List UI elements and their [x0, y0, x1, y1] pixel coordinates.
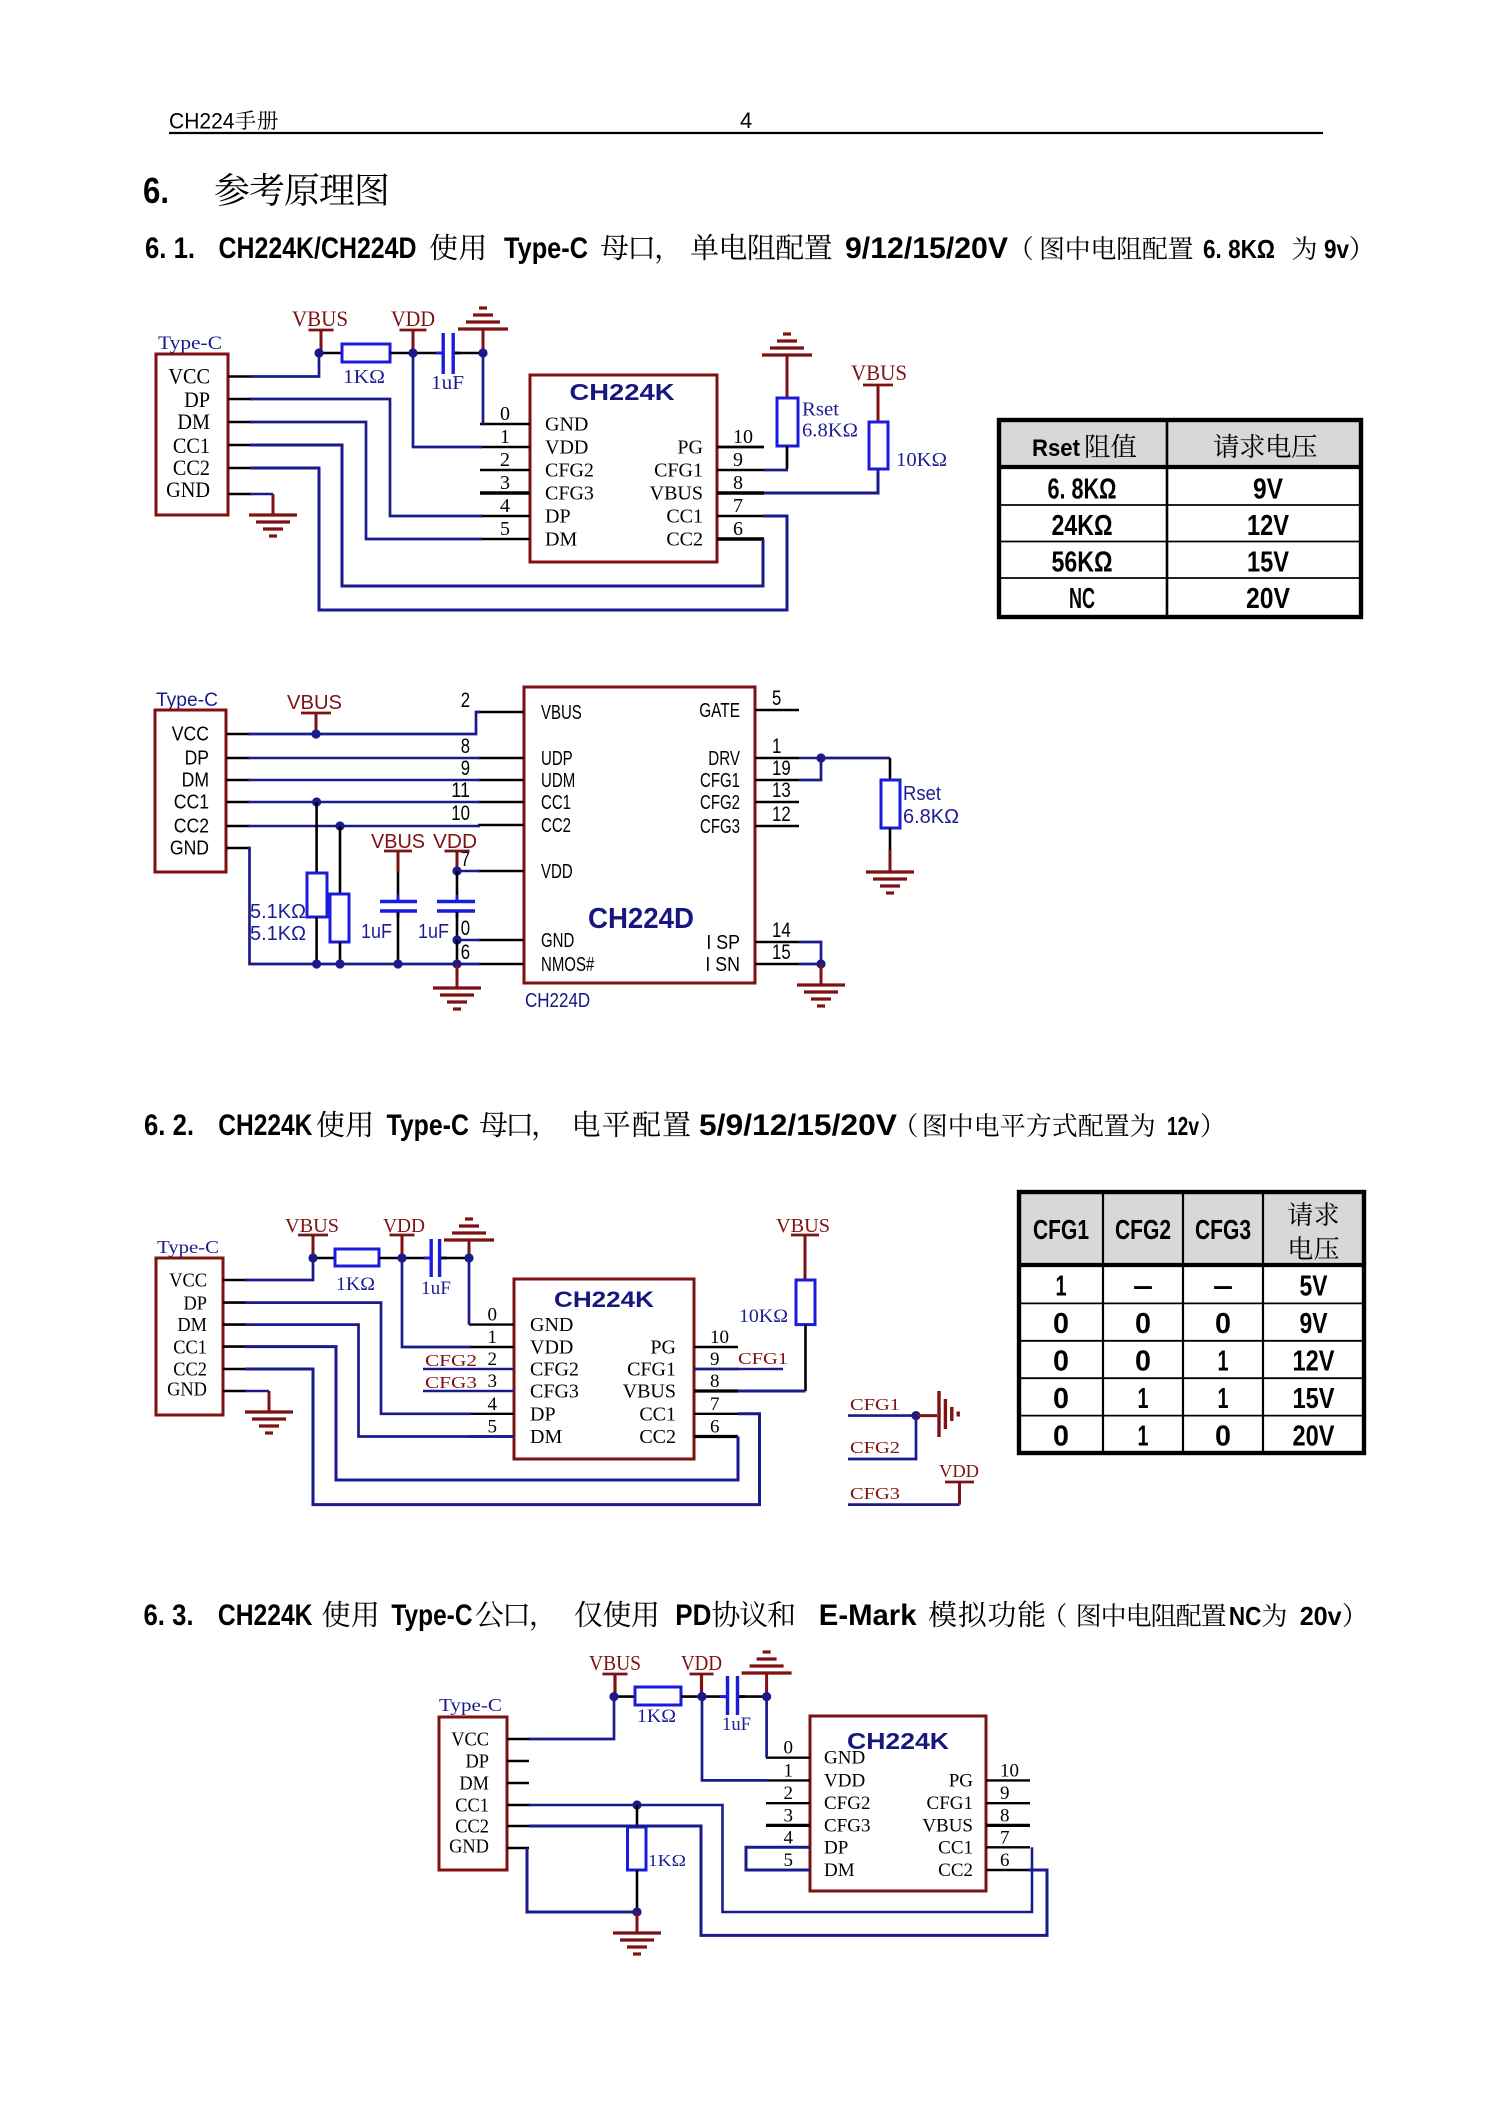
- svg-text:CC1: CC1: [455, 1795, 489, 1817]
- svg-text:4: 4: [784, 1827, 794, 1848]
- svg-text:DM: DM: [177, 409, 210, 434]
- svg-text:VDD: VDD: [530, 1337, 573, 1359]
- svg-text:CH224K: CH224K: [218, 1599, 313, 1632]
- svg-text:CFG3: CFG3: [700, 816, 740, 838]
- svg-text:56KΩ: 56KΩ: [1052, 547, 1113, 579]
- capacitor C3 1uF: [456, 871, 459, 900]
- svg-text:0: 0: [1135, 1308, 1151, 1340]
- svg-text:7: 7: [1000, 1827, 1010, 1848]
- pin stubs U2 right: [755, 709, 799, 711]
- svg-text:Type-C: Type-C: [156, 690, 218, 711]
- wire ISP/ISN to ground: [799, 942, 821, 964]
- svg-text:8: 8: [1000, 1805, 1010, 1826]
- svg-text:NC: NC: [1069, 583, 1095, 615]
- svg-text:VBUS: VBUS: [650, 483, 703, 505]
- svg-text:PG: PG: [650, 1337, 676, 1359]
- pin stubs U4: [766, 1756, 810, 1758]
- svg-text:NMOS#: NMOS#: [541, 954, 595, 976]
- svg-text:20V: 20V: [1246, 583, 1291, 615]
- svg-text:1KΩ: 1KΩ: [336, 1274, 375, 1295]
- svg-text:20V: 20V: [1293, 1421, 1336, 1453]
- svg-text:9: 9: [710, 1349, 720, 1370]
- svg-text:Rset: Rset: [903, 783, 941, 805]
- svg-text:8: 8: [461, 735, 470, 758]
- wire GND connector to rail schematic 4: [507, 1847, 529, 1850]
- ground top schematic 3: [444, 1238, 494, 1241]
- svg-text:1: 1: [488, 1327, 498, 1348]
- ground under connector schematic 3: [245, 1410, 293, 1413]
- svg-text:DM: DM: [824, 1860, 855, 1881]
- svg-text:CFG1: CFG1: [738, 1349, 788, 1368]
- svg-text:0: 0: [500, 403, 510, 425]
- junction nodes on VBUS/VDD rail: [314, 348, 323, 357]
- svg-text:PG: PG: [949, 1770, 974, 1791]
- wire cap C3 to pin 0 GND: [457, 939, 480, 942]
- table 1 Rset voltage: [1001, 422, 1359, 468]
- svg-text:12V: 12V: [1293, 1346, 1336, 1378]
- svg-text:DM: DM: [177, 1314, 207, 1336]
- svg-text:3: 3: [784, 1805, 794, 1826]
- svg-text:DM: DM: [530, 1426, 562, 1448]
- wire CC2 to pin 6 schematic 4: [507, 1825, 531, 1828]
- svg-text:Type-C: Type-C: [439, 1695, 502, 1715]
- svg-text:1: 1: [500, 426, 510, 448]
- svg-text:9/12/15/20V: 9/12/15/20V: [845, 232, 1008, 265]
- wire VDD node to pin 1: [413, 353, 482, 447]
- svg-text:1uF: 1uF: [361, 921, 392, 943]
- svg-text:CC1: CC1: [174, 792, 209, 814]
- svg-text:9v: 9v: [1324, 234, 1349, 264]
- svg-text:DP: DP: [545, 506, 571, 528]
- junction nodes schematic 4: [609, 1692, 618, 1701]
- svg-text:VDD: VDD: [541, 861, 573, 883]
- svg-text:5.1KΩ: 5.1KΩ: [250, 901, 306, 923]
- svg-text:CFG2: CFG2: [425, 1351, 477, 1370]
- wire CC2 to pin 10: [226, 825, 250, 828]
- svg-text:19: 19: [772, 757, 791, 780]
- table 2 CFG levels: [1021, 1194, 1362, 1266]
- capacitor C1 1uF: [413, 352, 442, 355]
- svg-text:CC2: CC2: [173, 1359, 207, 1381]
- svg-text:Rset: Rset: [1032, 435, 1080, 462]
- svg-text:0: 0: [488, 1305, 498, 1326]
- svg-text:GND: GND: [166, 477, 210, 502]
- svg-text:12: 12: [772, 803, 791, 826]
- IC U4 CH224K: [810, 1716, 986, 1891]
- ground top right schematic 1: [458, 327, 508, 330]
- pin stubs U3: [469, 1323, 514, 1325]
- svg-text:VBUS: VBUS: [589, 1651, 641, 1675]
- svg-text:GND: GND: [167, 1379, 207, 1401]
- svg-text:6: 6: [461, 941, 470, 964]
- svg-text:CFG2: CFG2: [1115, 1214, 1171, 1245]
- svg-text:CFG2: CFG2: [850, 1438, 900, 1457]
- svg-text:DM: DM: [545, 529, 577, 551]
- resistor R2 10Kohm: [869, 422, 888, 469]
- svg-text:5.1KΩ: 5.1KΩ: [250, 923, 306, 945]
- ground rail wire to pin 6 NMOS#: [226, 847, 250, 850]
- svg-text:GND: GND: [530, 1314, 573, 1336]
- wire DM to pin 5 schematic 3: [223, 1323, 247, 1326]
- svg-text:9: 9: [733, 449, 743, 471]
- resistor R7 10Kohm: [796, 1280, 815, 1325]
- svg-text:6: 6: [733, 518, 743, 540]
- svg-text:VBUS: VBUS: [292, 306, 348, 331]
- svg-text:CFG3: CFG3: [545, 483, 594, 505]
- svg-text:6. 8KΩ: 6. 8KΩ: [1048, 474, 1117, 506]
- svg-text:CFG3: CFG3: [1195, 1214, 1251, 1245]
- svg-text:4: 4: [488, 1394, 498, 1415]
- wire GND connector to ground: [228, 493, 252, 496]
- svg-text:DP: DP: [185, 748, 209, 770]
- svg-text:11: 11: [451, 779, 470, 802]
- svg-text:0: 0: [461, 917, 470, 940]
- svg-text:0: 0: [1135, 1346, 1151, 1378]
- wire CC1 to pin 11: [226, 801, 250, 804]
- svg-text:1KΩ: 1KΩ: [648, 1851, 686, 1870]
- svg-text:I SN: I SN: [705, 954, 740, 976]
- svg-text:5/9/12/15/20V: 5/9/12/15/20V: [699, 1109, 897, 1142]
- svg-text:VBUS: VBUS: [541, 702, 582, 724]
- svg-text:4: 4: [740, 108, 752, 133]
- svg-text:20v: 20v: [1300, 1601, 1343, 1631]
- resistor Rset 6.8Kohm: [777, 398, 798, 446]
- svg-text:1uF: 1uF: [418, 921, 449, 943]
- ground under Rset: [866, 870, 914, 873]
- capacitor C2 1uF: [397, 872, 400, 900]
- svg-text:CFG3: CFG3: [824, 1815, 870, 1836]
- svg-text:CFG3: CFG3: [425, 1373, 477, 1392]
- svg-text:UDP: UDP: [541, 748, 573, 770]
- svg-text:1: 1: [1138, 1421, 1149, 1453]
- wire VDD node to pin 1 schematic 4: [702, 1697, 768, 1781]
- svg-text:DP: DP: [530, 1403, 556, 1425]
- wire GND node to pin 0 schematic 3: [468, 1258, 471, 1325]
- svg-text:CFG1: CFG1: [927, 1793, 973, 1814]
- svg-text:CFG2: CFG2: [545, 460, 594, 482]
- svg-text:VBUS: VBUS: [851, 360, 907, 385]
- wire VCC to pin 2 VBUS: [226, 733, 250, 736]
- svg-text:15V: 15V: [1293, 1383, 1336, 1415]
- wire CC2 to pin 7: [228, 467, 252, 470]
- svg-text:6. 8KΩ: 6. 8KΩ: [1203, 234, 1275, 264]
- svg-text:CC2: CC2: [541, 815, 571, 837]
- svg-text:Type-C: Type-C: [504, 232, 588, 265]
- svg-text:1: 1: [1056, 1271, 1067, 1303]
- svg-text:DP: DP: [184, 1293, 208, 1315]
- wire DM to pin 9 UDM: [226, 779, 250, 782]
- svg-text:15V: 15V: [1247, 547, 1290, 579]
- svg-text:6: 6: [1000, 1850, 1010, 1871]
- svg-text:24KΩ: 24KΩ: [1052, 510, 1113, 542]
- ground under schematic 2: [456, 964, 459, 988]
- svg-text:9: 9: [461, 757, 470, 780]
- svg-text:5V: 5V: [1300, 1271, 1329, 1303]
- wire DP to pin 4: [228, 398, 252, 401]
- svg-text:2: 2: [784, 1783, 794, 1804]
- svg-text:0: 0: [1053, 1346, 1069, 1378]
- capacitor C5 1uF: [702, 1695, 726, 1698]
- svg-text:10KΩ: 10KΩ: [896, 449, 947, 471]
- svg-text:DM: DM: [459, 1773, 489, 1795]
- wire VCC to VBUS node: [228, 375, 252, 378]
- resistor R3 5.1Kohm: [315, 802, 318, 873]
- resistor R4 5.1Kohm: [339, 826, 342, 894]
- IC U2 CH224D: [524, 687, 755, 983]
- svg-text:0: 0: [1215, 1421, 1231, 1453]
- svg-text:5: 5: [500, 518, 510, 540]
- svg-text:4: 4: [500, 495, 510, 517]
- svg-text:CFG1: CFG1: [627, 1359, 676, 1381]
- svg-text:6. 1.: 6. 1.: [145, 232, 195, 265]
- svg-text:2: 2: [488, 1349, 498, 1370]
- svg-text:0: 0: [784, 1738, 794, 1759]
- ground top schematic 4: [742, 1671, 792, 1674]
- svg-text:VBUS: VBUS: [623, 1381, 676, 1403]
- svg-text:CFG3: CFG3: [850, 1484, 900, 1503]
- wire GND connector to ground schematic 3: [223, 1390, 247, 1393]
- svg-text:0: 0: [1053, 1308, 1069, 1340]
- svg-text:12V: 12V: [1247, 510, 1290, 542]
- pin stubs U1: [480, 423, 530, 425]
- stub DP connector: [507, 1760, 529, 1763]
- svg-text:6. 3.: 6. 3.: [144, 1599, 194, 1632]
- svg-text:1uF: 1uF: [431, 372, 464, 394]
- svg-text:CH224K: CH224K: [570, 379, 675, 405]
- wire VDD to pin 7: [457, 870, 480, 873]
- svg-text:DM: DM: [182, 770, 209, 792]
- svg-text:10: 10: [733, 426, 753, 448]
- svg-text:13: 13: [772, 779, 791, 802]
- svg-text:3: 3: [500, 472, 510, 494]
- svg-text:10: 10: [710, 1327, 729, 1348]
- svg-text:CFG2: CFG2: [530, 1359, 579, 1381]
- svg-text:1: 1: [1218, 1383, 1229, 1415]
- svg-text:DP: DP: [466, 1751, 490, 1773]
- svg-text:6: 6: [710, 1417, 720, 1438]
- svg-text:3: 3: [488, 1371, 498, 1392]
- svg-text:14: 14: [772, 919, 791, 942]
- svg-text:8: 8: [710, 1371, 720, 1392]
- svg-text:VDD: VDD: [545, 437, 588, 459]
- wire DM to pin 5: [228, 421, 252, 424]
- resistor R1 1Kohm: [319, 352, 342, 355]
- svg-text:15: 15: [772, 941, 791, 964]
- svg-text:6.8KΩ: 6.8KΩ: [802, 420, 858, 442]
- resistor R6 1Kohm: [313, 1257, 335, 1260]
- svg-text:CFG1: CFG1: [700, 770, 740, 792]
- svg-text:GND: GND: [541, 930, 574, 952]
- DP DM loop U4: [746, 1847, 810, 1870]
- svg-text:1: 1: [772, 735, 781, 758]
- svg-text:CH224D: CH224D: [525, 990, 590, 1012]
- header rule: [169, 132, 1323, 134]
- svg-text:CH224K: CH224K: [218, 1109, 312, 1142]
- wire Rset to pin 9 CFG1: [786, 446, 789, 469]
- svg-text:2: 2: [461, 689, 470, 712]
- wire CC1 to pin 7 schematic 4: [507, 1804, 531, 1807]
- ground under connector schematic 1: [249, 513, 297, 516]
- wire VDD node to pin 1 schematic 3: [402, 1258, 471, 1347]
- svg-text:CC2: CC2: [666, 529, 703, 551]
- svg-text:VCC: VCC: [168, 364, 210, 389]
- svg-text:CC1: CC1: [639, 1403, 676, 1425]
- svg-text:CH224K/CH224D: CH224K/CH224D: [219, 232, 417, 265]
- svg-text:5: 5: [488, 1417, 498, 1438]
- wire CC1 to pin 6: [228, 444, 252, 447]
- resistor R9 1Kohm CC pulldown: [636, 1805, 639, 1827]
- wire DRV/CFG1 to Rset: [799, 757, 821, 760]
- wire CC2 to pin 7 schematic 3: [223, 1368, 247, 1371]
- svg-text:8: 8: [733, 472, 743, 494]
- svg-text:0: 0: [1215, 1308, 1231, 1340]
- IC U3 CH224K: [514, 1279, 694, 1459]
- wire GND node to pin 0 schematic 4: [765, 1697, 768, 1758]
- wire 10K to pin 8 schematic 3: [804, 1325, 807, 1391]
- svg-text:1: 1: [1138, 1383, 1149, 1415]
- wire DP to pin 8 UDP: [226, 757, 250, 760]
- wire 10K to pin 8 VBUS: [764, 469, 878, 493]
- svg-text:2: 2: [500, 449, 510, 471]
- svg-text:GATE: GATE: [699, 700, 740, 722]
- svg-text:6.8KΩ: 6.8KΩ: [903, 806, 959, 828]
- svg-text:CH224K: CH224K: [554, 1287, 654, 1312]
- svg-text:CH224D: CH224D: [588, 903, 694, 935]
- svg-text:PG: PG: [677, 437, 703, 459]
- wire GND node to pin 0: [482, 353, 483, 424]
- svg-text:GND: GND: [170, 838, 209, 860]
- svg-text:–: –: [1133, 1271, 1153, 1303]
- ground above Rset: [762, 353, 812, 356]
- svg-text:1uF: 1uF: [421, 1278, 451, 1299]
- svg-text:CC2: CC2: [938, 1860, 973, 1881]
- svg-text:Type-C: Type-C: [157, 1237, 219, 1257]
- svg-text:9V: 9V: [1253, 474, 1284, 506]
- svg-text:1uF: 1uF: [722, 1714, 751, 1735]
- svg-text:VCC: VCC: [451, 1729, 489, 1751]
- svg-text:GND: GND: [824, 1748, 865, 1769]
- resistor R5 Rset 6.8Kohm: [881, 780, 900, 828]
- svg-text:E-Mark: E-Mark: [819, 1599, 917, 1632]
- svg-text:CFG2: CFG2: [824, 1793, 870, 1814]
- svg-text:1KΩ: 1KΩ: [637, 1706, 676, 1727]
- svg-text:10: 10: [451, 802, 470, 825]
- wire Rset to ground: [889, 828, 892, 852]
- svg-text:VDD: VDD: [824, 1770, 865, 1791]
- svg-text:CFG1: CFG1: [1033, 1214, 1089, 1245]
- svg-text:9: 9: [1000, 1783, 1010, 1804]
- pin stubs U2 left: [478, 711, 524, 713]
- svg-text:CC1: CC1: [541, 792, 571, 814]
- svg-text:1KΩ: 1KΩ: [343, 366, 385, 388]
- svg-text:CC2: CC2: [174, 816, 209, 838]
- svg-text:5: 5: [784, 1850, 794, 1871]
- svg-text:Type-C: Type-C: [391, 1599, 472, 1632]
- svg-text:CC2: CC2: [455, 1816, 489, 1838]
- svg-text:DP: DP: [824, 1837, 848, 1858]
- svg-text:VCC: VCC: [172, 724, 209, 746]
- svg-text:10: 10: [1000, 1760, 1019, 1781]
- svg-text:10KΩ: 10KΩ: [739, 1306, 788, 1327]
- wire CC1 to pin 6 schematic 3: [223, 1345, 247, 1348]
- svg-text:VDD: VDD: [939, 1461, 979, 1481]
- svg-text:7: 7: [710, 1394, 720, 1415]
- svg-text:1: 1: [784, 1760, 794, 1781]
- svg-text:GND: GND: [449, 1836, 489, 1858]
- svg-text:1: 1: [1218, 1346, 1229, 1378]
- svg-text:Type-C: Type-C: [158, 333, 222, 354]
- ground under ISP/ISN: [797, 983, 845, 986]
- svg-text:DRV: DRV: [708, 748, 740, 770]
- svg-text:CFG1: CFG1: [850, 1395, 900, 1414]
- svg-text:CC1: CC1: [173, 1337, 207, 1359]
- svg-text:CC2: CC2: [639, 1426, 676, 1448]
- wire VCC to VBUS node schematic 4: [507, 1738, 531, 1741]
- svg-text:7: 7: [733, 495, 743, 517]
- svg-text:CFG1: CFG1: [654, 460, 703, 482]
- svg-text:UDM: UDM: [541, 770, 575, 792]
- svg-text:Rset: Rset: [802, 399, 839, 421]
- stub DM connector: [507, 1782, 529, 1785]
- svg-text:–: –: [1213, 1271, 1233, 1303]
- wire VCC to VBUS node schematic 3: [223, 1279, 247, 1282]
- IC U1 CH224K: [530, 375, 717, 562]
- svg-text:12v: 12v: [1167, 1111, 1199, 1141]
- svg-text:5: 5: [772, 687, 781, 710]
- svg-text:6.: 6.: [143, 170, 169, 211]
- svg-text:VCC: VCC: [169, 1270, 207, 1292]
- svg-text:PD: PD: [675, 1599, 711, 1632]
- svg-text:VDD: VDD: [391, 306, 435, 331]
- svg-text:9V: 9V: [1300, 1308, 1329, 1340]
- svg-text:0: 0: [1053, 1421, 1069, 1453]
- svg-text:VBUS: VBUS: [922, 1815, 973, 1836]
- wire DP to pin 4 schematic 3: [223, 1301, 247, 1304]
- svg-text:GND: GND: [545, 414, 588, 436]
- svg-text:Type-C: Type-C: [387, 1109, 469, 1142]
- svg-text:CFG2: CFG2: [700, 792, 740, 814]
- svg-text:NC: NC: [1229, 1601, 1262, 1631]
- svg-text:I SP: I SP: [706, 932, 740, 954]
- ground bottom schematic 4: [636, 1912, 639, 1933]
- svg-text:0: 0: [1053, 1383, 1069, 1415]
- junction nodes schematic 3: [308, 1253, 317, 1262]
- capacitor C4 1uF: [402, 1257, 430, 1260]
- svg-text:CC1: CC1: [666, 506, 703, 528]
- resistor R8 1Kohm: [614, 1695, 635, 1698]
- svg-text:VBUS: VBUS: [287, 692, 342, 714]
- svg-text:6. 2.: 6. 2.: [144, 1109, 194, 1142]
- svg-text:CH224: CH224: [169, 108, 235, 133]
- ground sideways for CFG1/CFG2: [916, 1414, 937, 1417]
- svg-text:CFG3: CFG3: [530, 1381, 579, 1403]
- svg-text:VDD: VDD: [681, 1651, 722, 1675]
- svg-text:CC1: CC1: [938, 1837, 973, 1858]
